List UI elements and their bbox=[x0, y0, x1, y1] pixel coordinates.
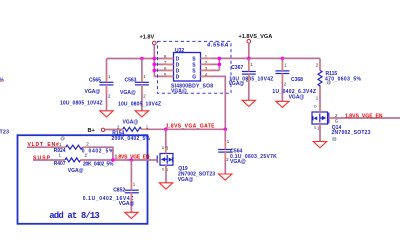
svg-text:1: 1 bbox=[284, 63, 287, 68]
wire: R924 red pins bbox=[62, 146, 89, 148]
node junction C368 bbox=[281, 57, 285, 61]
ground under C852 bbox=[125, 212, 138, 218]
svg-text:1.8VS_VGE_EN: 1.8VS_VGE_EN bbox=[345, 113, 383, 119]
wire: Q14 source to ground bbox=[319, 124, 321, 142]
wire: U32 pin2 stub bbox=[201, 63, 220, 65]
wire: C565 red pins bbox=[106, 75, 108, 94]
wire: main net +1.8V horizontal left segment bbox=[107, 58, 174, 60]
Q14 channel arrow bbox=[322, 116, 326, 120]
node junction pin6 row bbox=[153, 69, 157, 73]
svg-text:G: G bbox=[335, 119, 339, 124]
svg-text:D: D bbox=[176, 75, 180, 81]
capacitor C564 bbox=[224, 129, 226, 149]
node junction pin1 bbox=[218, 57, 222, 61]
capacitor C563 bbox=[141, 59, 143, 83]
svg-text:10U_0805_10V4Z: 10U_0805_10V4Z bbox=[60, 101, 103, 107]
svg-text:VGA@: VGA@ bbox=[85, 89, 101, 95]
wire: U32 pin3 stub bbox=[201, 69, 220, 71]
node junction at C563 tap bbox=[140, 57, 144, 61]
svg-text:2: 2 bbox=[226, 157, 229, 162]
svg-text:R407: R407 bbox=[54, 161, 66, 167]
svg-text:VGA@: VGA@ bbox=[171, 88, 187, 94]
svg-text:VGA@: VGA@ bbox=[68, 168, 84, 174]
svg-text:VGA@: VGA@ bbox=[178, 177, 194, 183]
wire fragment left edge bbox=[0, 80, 3, 82]
wire: vertical from +1.8V terminal down to pin rows bbox=[153, 45, 155, 77]
ground under Q14 bbox=[313, 142, 326, 148]
svg-text:2N7002_SOT23: 2N7002_SOT23 bbox=[332, 130, 371, 136]
svg-text:U32: U32 bbox=[175, 48, 184, 54]
capacitor C367 bbox=[248, 58, 250, 71]
capacitor C368 bbox=[281, 58, 283, 71]
svg-text:VGA@: VGA@ bbox=[123, 120, 139, 126]
node junction pin2 bbox=[218, 63, 222, 67]
wire: Q19 source to ground bbox=[165, 165, 167, 183]
svg-text:10U_0805_10V4Z: 10U_0805_10V4Z bbox=[118, 101, 161, 107]
svg-text:B+: B+ bbox=[88, 128, 96, 134]
Q19 body diode bbox=[169, 158, 173, 162]
power terminal B+ bbox=[101, 128, 104, 131]
svg-text:1: 1 bbox=[227, 139, 230, 144]
svg-text:1.8VS_VGA_GATE: 1.8VS_VGA_GATE bbox=[166, 124, 215, 130]
svg-text:2: 2 bbox=[316, 63, 319, 68]
capacitor C852 bbox=[130, 160, 132, 190]
wire: Q19 red pins bbox=[152, 148, 167, 172]
ground under C563 bbox=[135, 111, 148, 117]
svg-text:VGA@: VGA@ bbox=[119, 201, 135, 207]
ground under C367 bbox=[242, 100, 255, 106]
svg-text:T23: T23 bbox=[0, 130, 9, 136]
wire: U32 pin4 gate stub bbox=[201, 76, 226, 129]
svg-text:+1.8V: +1.8V bbox=[140, 35, 155, 41]
svg-text:C367: C367 bbox=[231, 65, 243, 71]
svg-text:@: @ bbox=[332, 137, 337, 142]
wire: gate net 1.8VS_VGE_EN to Q19 bbox=[81, 159, 158, 161]
blue revision box bbox=[18, 135, 148, 224]
wire: R154 red pins bbox=[118, 128, 148, 130]
svg-text:C565: C565 bbox=[89, 77, 101, 83]
wire: R115 red pins bbox=[319, 63, 321, 95]
svg-text:VGA@: VGA@ bbox=[289, 95, 305, 101]
node junction C564/pin4 bbox=[224, 128, 228, 132]
transistor Q19 bbox=[165, 129, 167, 153]
wire: C367 red pins bbox=[248, 64, 250, 83]
wire: R924 output down to gate net bbox=[83, 147, 113, 160]
wire: U32 red pin stubs right bbox=[201, 58, 211, 76]
node junction R924/R407 bbox=[111, 158, 115, 162]
svg-text:1: 1 bbox=[316, 95, 319, 100]
transistor Q14 bbox=[312, 112, 328, 124]
svg-text:G: G bbox=[192, 75, 196, 81]
Q14 body diode bbox=[314, 116, 318, 120]
gate bar Q19 bbox=[156, 156, 158, 163]
svg-text:VGA@: VGA@ bbox=[120, 90, 136, 96]
wire: Q14 red pins bbox=[320, 107, 335, 131]
svg-text:@: @ bbox=[60, 136, 65, 141]
node junction +1.8VS_VGA bbox=[247, 57, 251, 61]
svg-text:+1.8VS_VGA: +1.8VS_VGA bbox=[239, 34, 273, 40]
gate bar Q14 bbox=[328, 113, 330, 124]
wire: net 1.8VS_VGA_GATE bbox=[166, 128, 226, 130]
svg-text:D: D bbox=[314, 104, 317, 108]
ground under C564 bbox=[219, 174, 232, 180]
svg-text:VGA@: VGA@ bbox=[230, 159, 246, 165]
svg-text:2: 2 bbox=[86, 142, 89, 147]
node junction Q19 drain bbox=[164, 128, 168, 132]
svg-text:@: @ bbox=[327, 80, 332, 85]
svg-text:20K_0402_5%: 20K_0402_5% bbox=[83, 162, 114, 168]
svg-text:1: 1 bbox=[250, 62, 253, 67]
Q19 channel arrow bbox=[161, 157, 165, 161]
svg-text:C368: C368 bbox=[291, 77, 303, 83]
svg-text:1: 1 bbox=[133, 182, 136, 187]
ground under C565 bbox=[100, 111, 113, 117]
power terminal +1.8V bbox=[153, 41, 157, 45]
chip U32 SI4800BDY_SO8 bbox=[174, 53, 201, 82]
svg-text:4.556A: 4.556A bbox=[206, 43, 229, 49]
wire: stub to U32 pin 7 bbox=[154, 63, 173, 65]
wire: C564 red pins bbox=[224, 142, 226, 161]
wire: vertical tying pins 1-3 bbox=[218, 58, 220, 70]
capacitor C565 bbox=[106, 59, 108, 83]
svg-text:1: 1 bbox=[143, 74, 146, 79]
svg-text:S: S bbox=[162, 168, 165, 172]
node junction at +1.8V drop bbox=[153, 57, 157, 61]
svg-text:2: 2 bbox=[284, 81, 287, 86]
svg-text:C563: C563 bbox=[125, 77, 137, 83]
wire: stub to U32 pin 5 bbox=[154, 75, 173, 77]
svg-text:C852: C852 bbox=[113, 187, 125, 193]
svg-text:200K_0402_5%: 200K_0402_5% bbox=[112, 136, 151, 142]
wire: U32 red pin stubs left bbox=[164, 59, 174, 77]
svg-text:VGA@: VGA@ bbox=[229, 81, 245, 87]
wire: R407 red pins bbox=[61, 159, 87, 161]
resistor R407 bbox=[65, 158, 81, 162]
svg-text:1: 1 bbox=[108, 74, 111, 79]
wire: C368 red pins bbox=[281, 63, 283, 82]
node junction C852 tap bbox=[130, 158, 134, 162]
ground under Q19 bbox=[159, 183, 172, 189]
wire: U32 pin1 row to right main net bbox=[201, 57, 321, 59]
ground under C368 bbox=[276, 101, 289, 107]
wire: C852 red pins bbox=[130, 182, 132, 201]
resistor R154 bbox=[123, 127, 142, 131]
svg-text:2: 2 bbox=[143, 94, 146, 99]
svg-text:add at 8/13: add at 8/13 bbox=[49, 211, 100, 221]
dashed current box 4.556A bbox=[158, 41, 232, 93]
power terminal +1.8VS_VGA bbox=[247, 40, 251, 44]
svg-text:D: D bbox=[162, 146, 165, 150]
wire: stub to U32 pin 6 bbox=[154, 69, 173, 71]
resistor R924 bbox=[66, 145, 83, 149]
svg-text:2: 2 bbox=[108, 94, 111, 99]
wire: C563 red pins bbox=[141, 75, 143, 94]
wire: Q14 gate net 1.8VS_VGE_EN bbox=[329, 117, 400, 119]
node junction pin7 row bbox=[153, 63, 157, 67]
resistor R115 bbox=[319, 58, 321, 70]
